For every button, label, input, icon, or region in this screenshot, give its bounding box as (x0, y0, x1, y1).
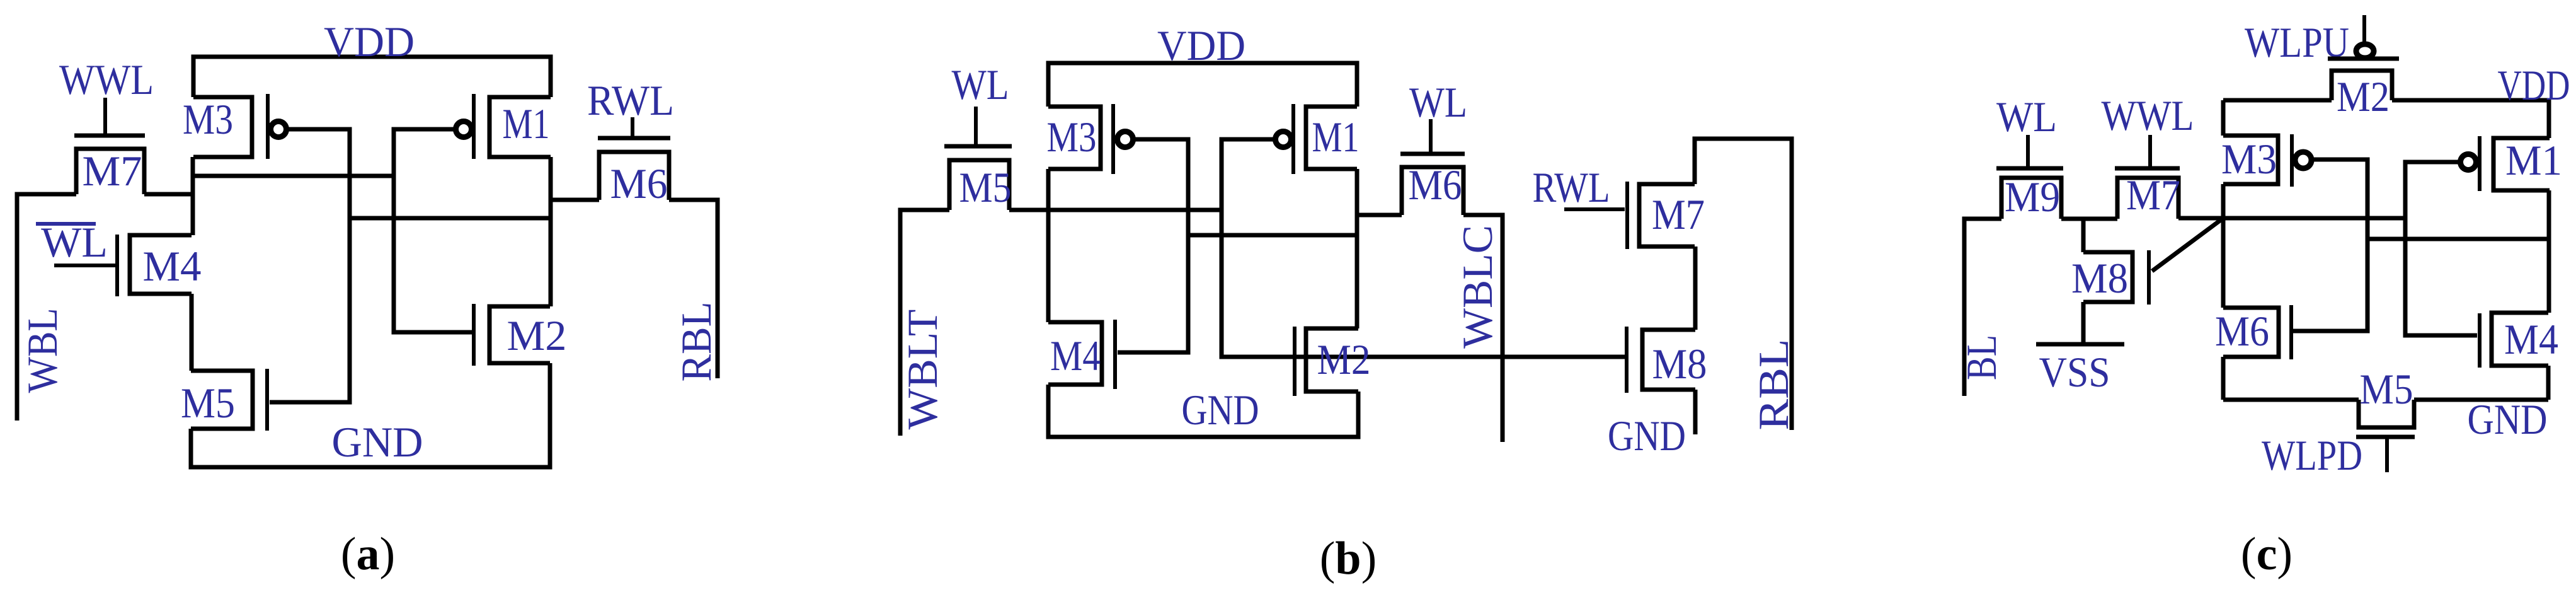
svg-text:GND: GND (2468, 395, 2548, 443)
wire cross-couple M3 gate to node F (c) (2367, 237, 2549, 241)
wire M5 source to WBLT line (b) (900, 210, 949, 436)
transistor M7 (b) NMOS channel+stubs (1639, 184, 1695, 247)
transistor M4 (a) gate stub from WLbar (54, 264, 116, 267)
ground VSS terminal bar (c) (2036, 342, 2124, 347)
transistor M7 (c) access NMOS channel (2117, 178, 2178, 219)
wire cross-couple node E to M1 gate (c) (2223, 216, 2405, 221)
wire junction down to M8 drain (c) (2081, 219, 2086, 252)
transistor M2 (c) gate plate (2328, 57, 2399, 61)
transistor M1 (c) PMOS channel+stubs (2493, 138, 2550, 190)
transistor M1 (a) gate bar (472, 94, 476, 159)
svg-text:RWL: RWL (587, 76, 674, 124)
wire M4 source to GND rail (c) (2546, 366, 2551, 400)
wire M8 source to GND terminal (b) (1693, 390, 1698, 434)
svg-text:M7: M7 (2126, 171, 2180, 219)
svg-text:M4: M4 (143, 242, 202, 290)
svg-text:M2: M2 (507, 311, 567, 359)
transistor M6 (b) access NMOS channel (1402, 167, 1463, 215)
svg-text:WBL: WBL (18, 308, 66, 393)
svg-text:M1: M1 (1312, 113, 1360, 161)
svg-text:WWL: WWL (59, 55, 154, 103)
transistor M8 (c) gate bar (2147, 250, 2151, 305)
svg-text:M8: M8 (1652, 340, 1707, 388)
wire GND rail right segment (c) (2414, 398, 2548, 402)
transistor M1 (b) gate bar (1291, 104, 1295, 174)
wire cross-couple node A to M1 gate (a) (193, 174, 394, 178)
wire GND rail (a) (191, 363, 550, 467)
transistor M1 (b) PMOS channel+stubs (1306, 107, 1357, 169)
svg-text:RBL: RBL (672, 302, 720, 382)
svg-text:RBL: RBL (1749, 339, 1797, 431)
wire M7 drain to node E (c) (2178, 216, 2223, 221)
wire GND rail left segment (c) (2223, 398, 2359, 402)
transistor M7 (c) gate stub from WWL (2148, 135, 2152, 166)
svg-text:VDD: VDD (324, 18, 415, 66)
wire M2 source to M3 source (c) (2223, 98, 2332, 103)
svg-text:M5: M5 (2360, 365, 2413, 413)
transistor M1 (c) gate bubble (2461, 154, 2476, 170)
transistor M5 (b) gate plate (944, 144, 1012, 149)
transistor M6 (c) NMOS channel+stubs (2223, 308, 2279, 357)
transistor M5 (a) NMOS channel+stubs (191, 371, 253, 429)
wire M9 source to BL line (c) (1964, 219, 2001, 396)
transistor M2 (c) gate bubble (2356, 44, 2374, 58)
transistor M1 (a) PMOS channel+stubs (489, 97, 551, 157)
transistor M5 (b) gate stub from WL (974, 107, 978, 144)
transistor M3 (b) gate bubble (1118, 132, 1133, 148)
wire M7 drain to RBL line (b) (1695, 139, 1792, 430)
svg-text:M6: M6 (610, 160, 668, 207)
svg-text:M1: M1 (503, 100, 550, 148)
wire M5 drain / cross-couple to M1 gate (b) (1009, 208, 1222, 212)
svg-text:VSS: VSS (2039, 348, 2110, 396)
transistor M3 (a) gate bar (266, 94, 270, 159)
svg-text:WL: WL (1409, 78, 1467, 126)
wire M1 gate to M2 gate (a) (394, 129, 472, 332)
wire M6 source to WBLC line (b) (1463, 215, 1503, 442)
transistor M1 (c) gate bar (2478, 136, 2482, 191)
svg-text:WLPD: WLPD (2262, 431, 2362, 479)
wire M3 gate to M6 gate (c) (2293, 160, 2367, 331)
transistor M2 (a) gate bar (472, 304, 476, 366)
svg-text:WL: WL (952, 61, 1009, 108)
transistor M3 (c) gate bubble (2295, 152, 2311, 168)
transistor M7 (c) gate plate (2115, 166, 2180, 171)
transistor M4 (b) NMOS channel+stubs (1048, 322, 1102, 385)
wire node B to M6 (a) (551, 198, 599, 202)
wire VDD rail (b) (1048, 63, 1357, 107)
svg-text:RWL: RWL (1533, 163, 1610, 211)
transistor M2 (c) PMOS access channel (2332, 71, 2392, 100)
wire M7 source to WBL line (a) (17, 194, 76, 421)
svg-text:M5: M5 (959, 163, 1012, 211)
svg-text:WBLC: WBLC (1453, 225, 1501, 349)
wire M9 drain to M7 source junction (c) (2061, 217, 2117, 221)
svg-text:(b): (b) (1320, 533, 1377, 584)
node A vertical wire (a) (191, 157, 195, 235)
transistor M6 (a) gate plate (598, 136, 670, 141)
svg-text:VDD: VDD (1157, 21, 1245, 69)
svg-text:GND: GND (1608, 412, 1686, 460)
wire M7 source to M8 drain (b) (1693, 247, 1698, 330)
svg-text:M8: M8 (2071, 254, 2128, 302)
transistor M3 (a) PMOS channel+stubs (193, 97, 252, 157)
svg-text:M3: M3 (183, 95, 233, 143)
wire GND rail (b) (1048, 385, 1358, 437)
transistor M6 (a) read access NMOS channel (599, 152, 669, 200)
svg-text:M7: M7 (1652, 190, 1705, 238)
transistor M1 (b) gate bubble (1276, 132, 1291, 148)
wire VDD rail (a) (193, 57, 551, 97)
transistor M4 (c) gate bar (2478, 313, 2482, 368)
svg-text:(c): (c) (2241, 528, 2293, 580)
transistor M7 (a) gate plate (74, 134, 145, 138)
svg-text:M4: M4 (2504, 315, 2558, 363)
svg-text:GND: GND (332, 418, 423, 466)
transistor M2 (c) gate stub from WLPU (2362, 15, 2366, 43)
wire M8 gate diagonal to node E (c) (2152, 218, 2223, 271)
transistor M2 (a) NMOS channel+stubs (489, 306, 550, 363)
wire M1 gate to M2 gate and M8 gate (b) (1222, 139, 1627, 357)
svg-text:WWL: WWL (2102, 91, 2194, 139)
node B vertical wire (a) (549, 157, 553, 306)
transistor M5 (c) NMOS channel dip (2359, 400, 2414, 427)
transistor M2 (b) gate bar (1293, 327, 1297, 396)
transistor M6 (b) gate stub from WL (1429, 119, 1433, 152)
transistor M4 (a) gate bar (115, 235, 119, 296)
transistor M4 (c) NMOS channel+stubs (2492, 313, 2548, 366)
transistor M8 (c) NMOS channel+stubs (2083, 252, 2132, 302)
transistor M4 (b) gate bar (1113, 320, 1117, 389)
svg-text:M3: M3 (1047, 113, 1097, 161)
node WLbar overline (a) (36, 222, 96, 226)
transistor M3 (c) gate bar (2290, 134, 2294, 187)
transistor M3 (b) gate bar (1111, 104, 1115, 174)
wire M6 source to RBL line (a) (669, 200, 718, 378)
node E vertical wire (c) (2221, 184, 2226, 308)
transistor M5 (c) gate stub to WLPD (2385, 439, 2389, 472)
transistor M6 (c) gate bar (2289, 305, 2293, 359)
svg-text:M1: M1 (2505, 136, 2562, 184)
node D vertical wire (b) (1355, 169, 1360, 328)
wire M8 source to VSS (c) (2081, 302, 2086, 342)
svg-text:M6: M6 (2215, 307, 2269, 355)
svg-text:M6: M6 (1409, 161, 1462, 209)
svg-text:M2: M2 (1317, 335, 1371, 383)
wire node D to M6 (b) (1357, 213, 1402, 218)
transistor M9 (c) access NMOS channel (2001, 178, 2061, 219)
svg-text:VDD: VDD (2498, 61, 2570, 109)
transistor M7 (b) gate stub from RWL (1564, 207, 1625, 211)
svg-text:M2: M2 (2337, 73, 2390, 120)
node C vertical wire (b) (1046, 169, 1051, 322)
svg-text:M9: M9 (2005, 173, 2060, 221)
transistor M2 (b) NMOS channel+stubs (1306, 328, 1358, 392)
transistor M5 (c) gate plate (2356, 435, 2415, 439)
svg-text:GND: GND (1182, 386, 1259, 434)
svg-text:BL: BL (1957, 335, 2005, 380)
transistor M5 (a) gate bar (265, 369, 269, 431)
transistor M1 (a) gate bubble (456, 122, 472, 137)
transistor M8 (b) gate bar (1625, 327, 1629, 393)
svg-text:M4: M4 (1050, 332, 1101, 380)
wire M2 to M3 vertical (c) (2221, 100, 2226, 136)
svg-text:WL: WL (1996, 93, 2057, 141)
wire M4 source to M5 drain (a) (190, 294, 194, 371)
svg-text:(a): (a) (341, 528, 395, 580)
transistor M3 (c) PMOS channel+stubs (2223, 136, 2278, 184)
wire M3 gate to M4 gate (b) (1118, 139, 1188, 352)
wire M1 gate to M4 gate (c) (2405, 162, 2477, 335)
transistor M6 (a) gate stub from RWL (631, 117, 634, 136)
svg-text:M7: M7 (83, 147, 142, 195)
transistor M7 (a) gate stub from WWL (103, 98, 107, 134)
wire M7 drain to node A (a) (144, 192, 193, 197)
node F vertical wire (c) (2547, 190, 2551, 313)
wire M2 drain to VDD (c) (2392, 100, 2549, 138)
transistor M7 (b) gate bar (1625, 182, 1629, 249)
wire M3 gate to M5 gate (a) (270, 129, 350, 402)
transistor M7 (a) access NMOS channel (76, 149, 144, 194)
svg-text:WBLT: WBLT (898, 310, 946, 430)
wire cross-couple M3 gate to node D (b) (1188, 233, 1357, 238)
transistor M5 (b) access NMOS channel (949, 160, 1009, 210)
svg-text:M5: M5 (181, 379, 235, 427)
transistor M3 (a) gate bubble (271, 122, 287, 137)
wire cross-couple M3 gate to node B (a) (350, 216, 551, 221)
wire M6 source to GND rail (c) (2221, 357, 2226, 400)
transistor M6 (b) gate plate (1400, 152, 1465, 156)
transistor M9 (c) gate stub from WL (2026, 135, 2030, 166)
transistor M9 (c) gate plate (1996, 166, 2063, 171)
transistor M8 (b) NMOS channel+stubs (1642, 330, 1695, 390)
transistor M3 (b) PMOS channel+stubs (1048, 107, 1101, 169)
svg-text:M3: M3 (2221, 135, 2277, 183)
transistor M4 (a) NMOS channel+stubs (130, 235, 192, 294)
